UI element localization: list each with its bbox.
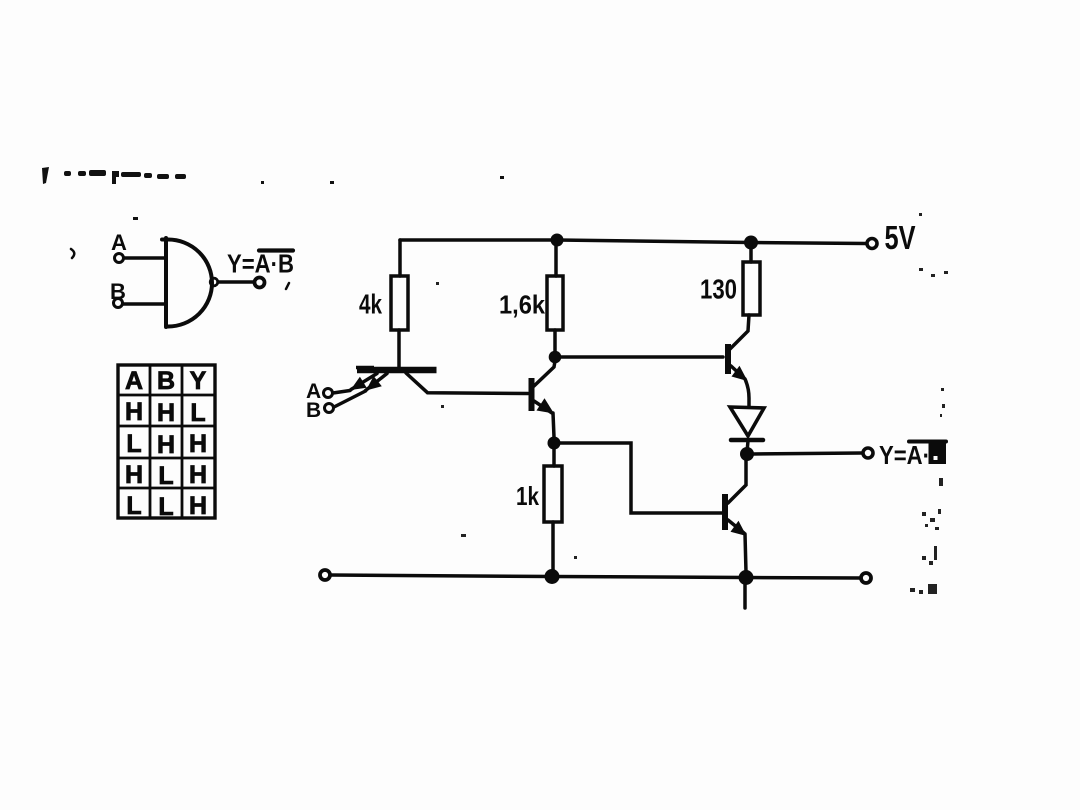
faded page title fragments xyxy=(42,167,504,220)
svg-text:1k: 1k xyxy=(516,481,539,511)
svg-text:1,6k: 1,6k xyxy=(499,290,545,320)
wire: R2 to node xyxy=(553,330,557,352)
svg-text:Y=A·B: Y=A·B xyxy=(227,249,294,279)
transistor Q3 emitter xyxy=(731,366,744,378)
svg-text:L: L xyxy=(126,430,141,458)
svg-text:H: H xyxy=(189,461,207,489)
5V supply rail xyxy=(400,240,866,244)
gate input terminal B xyxy=(114,299,123,308)
gate output label Y=A·B with overline xyxy=(227,249,294,279)
nand gate output wire xyxy=(218,280,254,284)
svg-text:A: A xyxy=(111,230,127,255)
resistor R2 1.6k xyxy=(547,276,563,330)
resistor R3 1k xyxy=(544,466,562,522)
svg-text:B: B xyxy=(157,367,175,395)
transistor Q1 emitter 2 xyxy=(366,374,388,391)
svg-text:H: H xyxy=(125,398,143,426)
transistor Q4 base bar (output pull-down) xyxy=(722,494,728,530)
ground rail right terminal xyxy=(861,573,871,583)
wire: Q2 emitter node to Q4 base xyxy=(560,443,722,513)
svg-text:L: L xyxy=(126,492,141,520)
diode D1 xyxy=(730,407,764,436)
node: Q2 emitter junction xyxy=(548,437,561,450)
transistor Q2 emitter xyxy=(534,401,552,413)
svg-text:H: H xyxy=(125,461,143,489)
wire: R1 to Q1 base xyxy=(397,330,401,367)
truth table xyxy=(118,365,215,518)
wire: Q4 emitter to ground rail xyxy=(745,534,746,572)
transistor Q3 collector xyxy=(730,315,749,349)
gate input wire A xyxy=(124,256,166,260)
wire: Q3 emitter to diode anode xyxy=(745,379,749,407)
transistor Q4 collector xyxy=(728,460,746,503)
transistor Q1 base bar (multi-emitter input) xyxy=(357,367,437,374)
wire: node to R3 xyxy=(552,449,556,466)
wire: rail to R1 xyxy=(398,240,402,276)
svg-text:L: L xyxy=(158,493,173,521)
ground rail left terminal xyxy=(320,570,330,580)
wire: rail to R4 xyxy=(749,242,753,262)
nand gate U1 body xyxy=(162,238,212,327)
stray mark left of gate xyxy=(71,249,74,258)
ground stub below rail xyxy=(743,584,747,608)
wire: rail to R2 xyxy=(554,240,558,276)
gate input wire B xyxy=(123,302,166,306)
transistor Q2 base bar (phase splitter) xyxy=(529,378,535,411)
input terminal B xyxy=(325,404,334,413)
svg-text:L: L xyxy=(158,462,173,490)
svg-text:B: B xyxy=(110,279,126,304)
nand gate output terminal xyxy=(255,278,265,288)
wire: Q1 collector to Q2 base xyxy=(406,373,528,394)
transistor Q2 collector xyxy=(534,361,555,386)
wire: emitter 2 to terminal B xyxy=(334,391,366,407)
wire: diode cathode to output node xyxy=(747,441,748,452)
svg-text:Y: Y xyxy=(190,367,207,395)
node: R3 / ground rail xyxy=(545,569,560,584)
input terminal A xyxy=(324,389,333,398)
scan noise specks right margin xyxy=(436,213,948,594)
resistor R1 4k xyxy=(391,276,408,330)
svg-text:130: 130 xyxy=(700,274,737,305)
svg-text:H: H xyxy=(157,399,175,427)
svg-text:5V: 5V xyxy=(885,219,916,256)
wire: emitter 1 to terminal A xyxy=(333,391,350,394)
wire: R3 to ground rail xyxy=(551,522,555,576)
wire: node to Q3 base xyxy=(561,355,723,359)
node: rail / R4 junction xyxy=(744,236,758,250)
node: Q2 collector junction xyxy=(549,351,562,364)
transistor Q3 base bar (output pull-up) xyxy=(725,344,731,374)
svg-text:H: H xyxy=(189,430,207,458)
gate input terminal A xyxy=(115,254,124,263)
wire: Q2 emitter down to node xyxy=(553,413,554,437)
node: output junction xyxy=(740,447,754,461)
stray mark below gate label xyxy=(286,283,289,289)
nand gate output bubble xyxy=(210,278,218,286)
svg-text:H: H xyxy=(189,492,207,520)
transistor Q1 emitter 1 xyxy=(351,374,377,390)
output wire xyxy=(753,453,862,454)
svg-text:H: H xyxy=(157,431,175,459)
svg-text:L: L xyxy=(190,399,205,427)
svg-text:A: A xyxy=(125,367,143,395)
node: rail / R2 junction xyxy=(551,234,564,247)
svg-text:4k: 4k xyxy=(359,289,382,320)
ground rail xyxy=(330,575,861,578)
transistor Q4 emitter xyxy=(728,520,744,533)
output terminal xyxy=(863,448,873,458)
svg-text:B: B xyxy=(306,399,321,422)
resistor R4 130 xyxy=(743,262,760,315)
5V terminal xyxy=(867,239,877,249)
output label Y=A·B xyxy=(879,440,946,470)
node: Q4 emitter / ground rail xyxy=(739,570,754,585)
